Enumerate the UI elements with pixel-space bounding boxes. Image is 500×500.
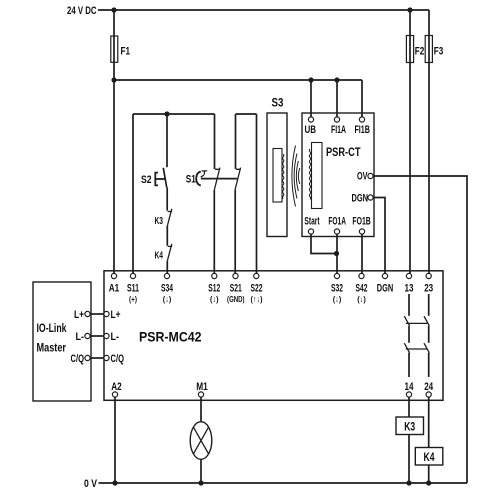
sensor S3 body xyxy=(267,113,287,237)
node junction 24V/F2 xyxy=(407,7,412,12)
svg-text:(+): (+) xyxy=(129,294,137,304)
wire UB drop xyxy=(310,80,312,117)
lamp M1 xyxy=(190,422,212,460)
wire Start link xyxy=(311,234,335,253)
svg-text:K3: K3 xyxy=(155,216,164,227)
wire S11 vertical xyxy=(132,114,134,273)
terminal S11 xyxy=(130,273,135,278)
svg-text:S34: S34 xyxy=(161,283,174,295)
svg-text:FO1A: FO1A xyxy=(328,216,346,228)
contact 13-14 second NO xyxy=(404,343,409,353)
wire DGN link xyxy=(373,198,385,274)
wire 0V from PSR-CT xyxy=(373,176,467,483)
sensor S3 coupling face xyxy=(283,154,284,199)
node junction F1/UB-rail xyxy=(111,77,116,82)
radio waves xyxy=(292,146,300,207)
svg-text:(↓): (↓) xyxy=(333,294,342,304)
wire K3 to K4 xyxy=(166,226,168,246)
wire K4 to 0V xyxy=(428,465,430,483)
node junction K3/0V xyxy=(406,480,411,485)
wire L+ link xyxy=(90,313,104,315)
wire FI1B drop xyxy=(361,80,363,117)
wire S2 to K3 xyxy=(166,188,168,211)
wire 24V top rail xyxy=(98,9,429,11)
svg-text:S32: S32 xyxy=(331,283,343,295)
svg-text:S12: S12 xyxy=(208,283,220,295)
svg-text:(↓): (↓) xyxy=(163,294,172,304)
svg-text:K3: K3 xyxy=(404,422,415,434)
node junction K4/0V xyxy=(426,480,431,485)
terminal FI1A xyxy=(334,117,339,122)
wire S1 linkage xyxy=(201,178,237,180)
wire input loop 1 top bar xyxy=(133,113,215,115)
svg-text:DGN: DGN xyxy=(377,283,394,295)
terminal 14 xyxy=(406,392,411,397)
svg-text:PSR-MC42: PSR-MC42 xyxy=(139,329,202,345)
switch S1 mushroom head xyxy=(196,172,201,186)
svg-text:S1: S1 xyxy=(186,174,196,186)
wire F3 branch vertical xyxy=(428,10,430,273)
svg-text:S3: S3 xyxy=(272,98,284,110)
wire S2 chain upper xyxy=(166,114,168,167)
receiver antenna element xyxy=(312,143,323,209)
terminal 24 xyxy=(426,392,431,397)
wire M1 lower xyxy=(200,459,202,483)
sensor S3 target element xyxy=(273,149,282,203)
wire mid contact 23 xyxy=(428,326,430,343)
wire M1 upper xyxy=(200,397,202,422)
svg-text:UB: UB xyxy=(305,124,317,136)
contact 13-14 first NO xyxy=(404,316,409,326)
terminal 23 xyxy=(426,273,431,278)
wire F2 branch vertical xyxy=(409,10,411,273)
svg-text:K4: K4 xyxy=(155,251,164,262)
node junction 24V/F1 xyxy=(111,7,116,12)
node junction A2/0V xyxy=(112,480,117,485)
node junction UB xyxy=(308,77,313,82)
wire input loop 2 top bar xyxy=(236,113,257,115)
switch S2 blade xyxy=(163,168,166,188)
node junction M1/0V xyxy=(198,480,203,485)
svg-text:L+: L+ xyxy=(111,309,121,321)
svg-text:(GND): (GND) xyxy=(227,294,245,304)
wire contact2 to S21 xyxy=(234,190,236,273)
wire FI1A drop xyxy=(336,80,338,117)
terminal L- relay xyxy=(104,333,109,338)
terminal A2 xyxy=(112,392,117,397)
svg-text:L-: L- xyxy=(76,331,85,343)
svg-text:OV: OV xyxy=(357,171,368,183)
svg-text:(↑↓): (↑↓) xyxy=(251,294,263,304)
contact K3 NC xyxy=(167,209,172,226)
terminal S21 xyxy=(233,273,238,278)
svg-text:(↓): (↓) xyxy=(357,294,366,304)
terminal S22 xyxy=(254,273,259,278)
fuse F3 xyxy=(425,36,432,63)
wire 14 to K3 xyxy=(408,397,410,417)
terminal S42 xyxy=(359,273,364,278)
contact 23-24 first NO xyxy=(424,316,429,326)
wire S1 contact1 upper xyxy=(214,114,216,169)
wire 24 to K4 xyxy=(428,397,430,447)
svg-text:A1: A1 xyxy=(109,283,120,295)
terminal 0V xyxy=(368,173,373,178)
svg-text:L+: L+ xyxy=(74,309,84,321)
wire L- link xyxy=(90,335,104,337)
svg-text:24 V DC: 24 V DC xyxy=(67,5,97,17)
wire contact to 14 xyxy=(408,353,410,377)
wire 0V rail xyxy=(99,482,468,484)
svg-text:13: 13 xyxy=(405,283,414,295)
svg-text:F1: F1 xyxy=(121,46,131,58)
svg-text:Master: Master xyxy=(37,343,67,355)
svg-text:F3: F3 xyxy=(434,46,444,58)
svg-text:C/Q: C/Q xyxy=(111,353,125,365)
terminal L- master xyxy=(85,333,90,338)
wire A2 down xyxy=(114,397,116,483)
terminal Start xyxy=(308,229,313,234)
receiver U1 PSR-CT box xyxy=(302,113,374,237)
svg-text:24: 24 xyxy=(424,381,434,393)
svg-text:FO1B: FO1B xyxy=(352,216,370,228)
svg-text:S21: S21 xyxy=(230,283,242,295)
wire UB feed rail xyxy=(114,79,362,81)
svg-text:(↓): (↓) xyxy=(210,294,219,304)
svg-text:Start: Start xyxy=(304,216,319,228)
svg-text:23: 23 xyxy=(424,283,433,295)
svg-text:FI1B: FI1B xyxy=(354,124,370,136)
linkage first pair xyxy=(406,322,428,324)
svg-text:M1: M1 xyxy=(196,381,208,393)
svg-text:FI1A: FI1A xyxy=(331,124,346,136)
terminal DGN xyxy=(382,273,387,278)
switch S1 T actuator xyxy=(201,171,208,177)
contact S1 channel2 xyxy=(235,168,241,190)
svg-text:A2: A2 xyxy=(111,381,122,393)
wire FO1A to S32 xyxy=(336,234,338,273)
svg-text:C/Q: C/Q xyxy=(71,353,85,365)
svg-text:K4: K4 xyxy=(424,452,435,464)
terminal 13 xyxy=(406,273,411,278)
svg-text:S42: S42 xyxy=(356,283,368,295)
terminal S34 xyxy=(164,273,169,278)
terminal FI1B xyxy=(359,117,364,122)
wire contact1 to S12 xyxy=(213,190,215,273)
wire mid contact 13 xyxy=(408,326,410,343)
svg-text:PSR-CT: PSR-CT xyxy=(326,147,361,159)
terminal S12 xyxy=(212,273,217,278)
node junction Start/FO1A xyxy=(334,251,339,256)
wire FO1B to S42 xyxy=(361,234,363,273)
wire contact 13 upper xyxy=(408,294,410,316)
fuse F2 xyxy=(406,36,413,63)
wire S22 vertical xyxy=(256,114,258,273)
terminal M1 xyxy=(198,392,203,397)
svg-text:L-: L- xyxy=(111,331,120,343)
linkage second pair xyxy=(406,348,428,350)
wire contact to 24 xyxy=(428,353,430,377)
receiver coupling face xyxy=(309,149,310,199)
svg-text:0 V: 0 V xyxy=(84,478,98,490)
contact S1 channel1 xyxy=(214,168,220,190)
lamp M1 cross xyxy=(193,427,208,454)
terminal A1 xyxy=(111,273,116,278)
node junction loop1/S2 xyxy=(164,111,169,116)
contact 23-24 second NO xyxy=(424,343,429,353)
terminal C/Q master xyxy=(85,355,90,360)
wire F1 branch vertical xyxy=(113,10,115,273)
svg-text:F2: F2 xyxy=(415,46,425,58)
wire K3 to 0V xyxy=(408,435,410,484)
terminal FO1A xyxy=(334,229,339,234)
svg-text:S22: S22 xyxy=(251,283,263,295)
relay coil K3 xyxy=(396,417,424,435)
wire K4 to S34 xyxy=(166,261,168,274)
fuse F1 xyxy=(111,36,118,62)
relay U2 PSR-MC42 box xyxy=(104,271,443,401)
node junction FI1A xyxy=(334,77,339,82)
svg-text:S2: S2 xyxy=(141,174,152,186)
wire S1 contact2 upper xyxy=(235,114,237,169)
svg-text:14: 14 xyxy=(405,381,415,393)
relay coil K4 xyxy=(415,448,443,466)
terminal S32 xyxy=(334,273,339,278)
svg-text:IO-Link: IO-Link xyxy=(37,323,67,335)
contact K4 NC xyxy=(167,244,172,261)
terminal FO1B xyxy=(359,229,364,234)
svg-text:S11: S11 xyxy=(127,283,139,295)
terminal UB xyxy=(308,117,313,122)
terminal L+ relay xyxy=(104,311,109,316)
io-link master box xyxy=(33,282,91,401)
terminal DGN psr-ct xyxy=(368,195,373,200)
wire contact 23 upper xyxy=(428,294,430,316)
terminal C/Q relay xyxy=(104,355,109,360)
svg-text:DGN: DGN xyxy=(352,193,369,205)
wire C/Q link xyxy=(90,357,104,359)
terminal L+ master xyxy=(85,311,90,316)
switch S2 actuator xyxy=(155,173,165,186)
